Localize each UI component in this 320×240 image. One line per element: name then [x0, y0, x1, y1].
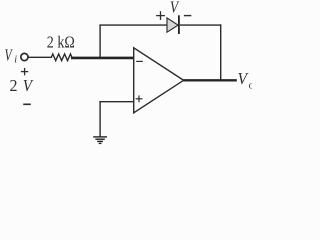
op-amp plus input symbol: [136, 95, 143, 102]
svg-text:V: V: [5, 45, 14, 64]
svg-text:o: o: [249, 80, 252, 91]
wire input terminal to resistor: [28, 56, 52, 58]
minus label (diode cathode side): [184, 15, 191, 17]
op-amp U1 triangle: [134, 48, 184, 113]
svg-text:V: V: [170, 0, 180, 17]
svg-text:2: 2: [10, 76, 18, 95]
wire top feedback right segment: [180, 24, 222, 26]
label Vo (output): [238, 69, 254, 91]
minus polarity (input source): [23, 103, 31, 105]
output wire: [183, 79, 236, 81]
wire feedback tap up: [99, 25, 101, 57]
label Vi (input voltage): [5, 45, 18, 65]
input terminal: [21, 53, 28, 60]
wire feedback right down: [220, 24, 222, 80]
label 2 V (source value): [10, 76, 35, 95]
wire ground vertical: [99, 101, 101, 137]
svg-text:V: V: [23, 76, 35, 95]
svg-text:i: i: [14, 54, 17, 65]
resistor 2 kOhm zigzag: [51, 54, 72, 61]
op-amp minus input symbol: [136, 60, 143, 62]
plus label (diode anode side): [156, 11, 165, 20]
plus polarity (input source): [21, 68, 28, 75]
svg-text:2 kΩ: 2 kΩ: [47, 33, 75, 52]
diode cathode bar: [178, 15, 180, 34]
wire noninverting input: [99, 101, 133, 103]
ground: [93, 137, 107, 144]
wire top feedback left segment: [99, 24, 167, 26]
diode D triangle: [167, 18, 178, 32]
thick wire node resistor to inverting input: [71, 57, 134, 60]
